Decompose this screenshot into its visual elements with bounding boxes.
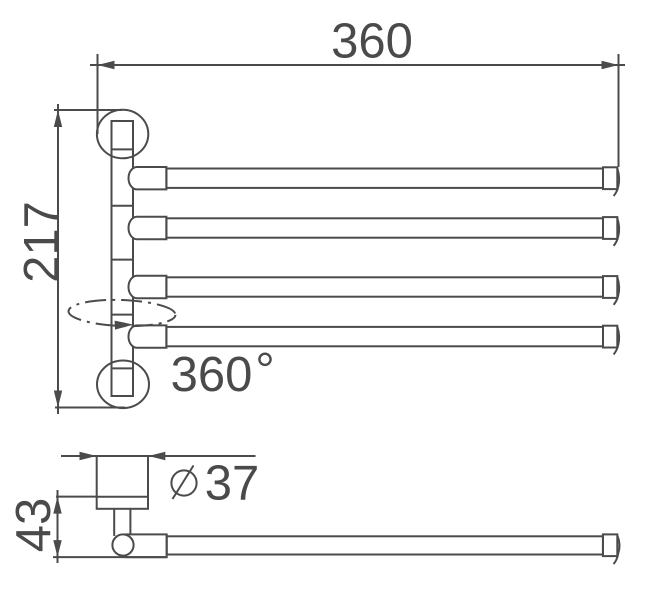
arm 3 hinge bbox=[128, 276, 166, 298]
arrow right of 360 dim bbox=[602, 61, 619, 69]
extension line bottom (217) bbox=[55, 407, 125, 409]
dimension 360 line bbox=[90, 64, 625, 66]
flange base line bbox=[97, 496, 148, 498]
extension line bottom (43) bbox=[53, 556, 167, 558]
arm 2 end cap bbox=[603, 217, 617, 239]
side view hinge block bbox=[126, 534, 167, 557]
arrow pointing right bbox=[80, 452, 97, 460]
arm 1 end cap bbox=[603, 167, 617, 189]
top mounting flange circle bbox=[97, 110, 148, 159]
arm 2 hinge bbox=[129, 217, 167, 239]
svg-text:43: 43 bbox=[7, 498, 61, 553]
arm 3 end cap bbox=[603, 276, 617, 298]
extension line top (217) bbox=[54, 109, 122, 111]
post joint line 1 bbox=[112, 148, 134, 150]
svg-text:217: 217 bbox=[15, 201, 69, 283]
arm 1 bar bbox=[166, 169, 603, 188]
post joint line 5 bbox=[112, 367, 134, 369]
side view: diameter 37 dim line right bbox=[148, 455, 255, 457]
rotation arrowhead bbox=[115, 321, 134, 330]
arrow top of 43 dim bbox=[53, 497, 61, 514]
side view hinge pivot circle bbox=[112, 534, 133, 555]
arrow left of 360 dim bbox=[98, 61, 115, 69]
extension line top (43) bbox=[56, 496, 97, 498]
post joint line 2 bbox=[112, 205, 134, 207]
side view end cap bbox=[603, 534, 617, 556]
arm 4 hinge bbox=[129, 325, 167, 347]
svg-text:360: 360 bbox=[331, 15, 413, 69]
arm 4 bar bbox=[166, 327, 603, 346]
arm 4 end cap bbox=[603, 326, 617, 348]
post joint line 3 bbox=[112, 259, 134, 261]
vertical post bbox=[112, 121, 134, 396]
arrow top of 217 dim bbox=[54, 110, 62, 127]
stem right line bbox=[129, 509, 131, 536]
svg-text:360: 360 bbox=[171, 348, 253, 402]
arrow bottom of 217 dim bbox=[54, 391, 62, 408]
extension line left (360) bbox=[97, 54, 99, 134]
arm 1 hinge bbox=[129, 167, 167, 189]
post joint line 4 bbox=[112, 314, 134, 316]
arm 2 bar bbox=[166, 218, 603, 237]
arm 3 bar bbox=[166, 277, 603, 296]
arrow bottom of 43 dim bbox=[53, 540, 61, 557]
arrow pointing left bbox=[148, 452, 165, 460]
side view: diameter 37 dim line left bbox=[61, 455, 97, 457]
rotation ellipse (dash-dot) bbox=[68, 298, 176, 328]
svg-text:37: 37 bbox=[205, 457, 260, 511]
dimension 43 line bbox=[57, 490, 59, 563]
stem left line bbox=[113, 509, 115, 536]
dimension 217 line bbox=[57, 104, 59, 414]
side view wall flange bbox=[97, 456, 148, 509]
bottom mounting flange circle bbox=[97, 361, 149, 409]
extension line right (360) bbox=[618, 54, 620, 167]
diameter symbol bbox=[171, 470, 196, 495]
degree symbol bbox=[259, 354, 270, 365]
side view bar bbox=[167, 536, 603, 554]
